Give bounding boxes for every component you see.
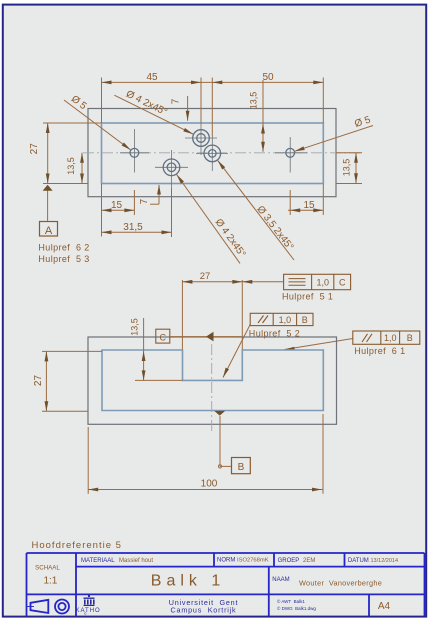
svg-text:Hulpref 5 1: Hulpref 5 1	[282, 292, 333, 302]
svg-text:15: 15	[303, 200, 315, 211]
svg-text:Wouter Vanoverberghe: Wouter Vanoverberghe	[299, 579, 382, 588]
svg-text:2EM: 2EM	[303, 558, 315, 564]
svg-text:27: 27	[33, 375, 44, 387]
svg-text:© AWT Balk1: © AWT Balk1	[277, 598, 305, 604]
svg-text:Hoofdreferentie 5: Hoofdreferentie 5	[32, 540, 122, 551]
svg-text:Hulpref 6 1: Hulpref 6 1	[354, 346, 405, 356]
svg-text:7: 7	[139, 198, 150, 204]
svg-text:© DWG Balk1.dwg: © DWG Balk1.dwg	[277, 605, 316, 611]
svg-text:A: A	[45, 225, 53, 237]
svg-text:Hulpref 6 2: Hulpref 6 2	[38, 243, 89, 253]
svg-text:DATUM: DATUM	[348, 558, 369, 564]
svg-text:50: 50	[262, 72, 274, 83]
svg-text:13/12/2014: 13/12/2014	[371, 558, 399, 564]
svg-text:NORM: NORM	[217, 558, 235, 564]
svg-text:C: C	[339, 278, 346, 288]
svg-text:27: 27	[29, 143, 40, 155]
svg-text:45: 45	[146, 72, 158, 83]
svg-text:13,5: 13,5	[342, 159, 352, 177]
svg-text:B: B	[238, 462, 245, 473]
svg-text:KATHO: KATHO	[76, 608, 101, 614]
svg-text:15: 15	[111, 200, 123, 211]
svg-text:NAAM: NAAM	[272, 577, 289, 583]
svg-text:B: B	[302, 315, 308, 325]
svg-text:1:1: 1:1	[43, 576, 57, 587]
svg-text:1,0: 1,0	[384, 333, 397, 343]
svg-text:©: ©	[84, 612, 87, 616]
svg-text:A4: A4	[378, 601, 391, 612]
svg-text:Massief hout: Massief hout	[119, 558, 153, 564]
svg-text:7: 7	[170, 98, 181, 104]
svg-text:1,0: 1,0	[316, 278, 329, 288]
svg-text:Campus Kortrijk: Campus Kortrijk	[171, 606, 237, 615]
svg-text:13,5: 13,5	[130, 318, 140, 336]
svg-text:Hulpref 5 3: Hulpref 5 3	[38, 254, 89, 264]
svg-text:MATERIAAL: MATERIAAL	[81, 558, 115, 564]
svg-text:ISO2768mK: ISO2768mK	[237, 558, 269, 564]
svg-text:31,5: 31,5	[123, 222, 143, 233]
svg-text:B: B	[407, 333, 413, 343]
svg-text:GROEP: GROEP	[278, 558, 300, 564]
svg-text:1,0: 1,0	[279, 315, 292, 325]
svg-text:100: 100	[201, 479, 218, 490]
svg-text:SCHAAL: SCHAAL	[35, 565, 60, 572]
svg-text:C: C	[160, 333, 167, 343]
svg-text:27: 27	[200, 271, 211, 282]
svg-text:Balk 1: Balk 1	[151, 573, 225, 590]
svg-text:13,5: 13,5	[66, 157, 76, 175]
svg-text:13,5: 13,5	[249, 92, 259, 110]
